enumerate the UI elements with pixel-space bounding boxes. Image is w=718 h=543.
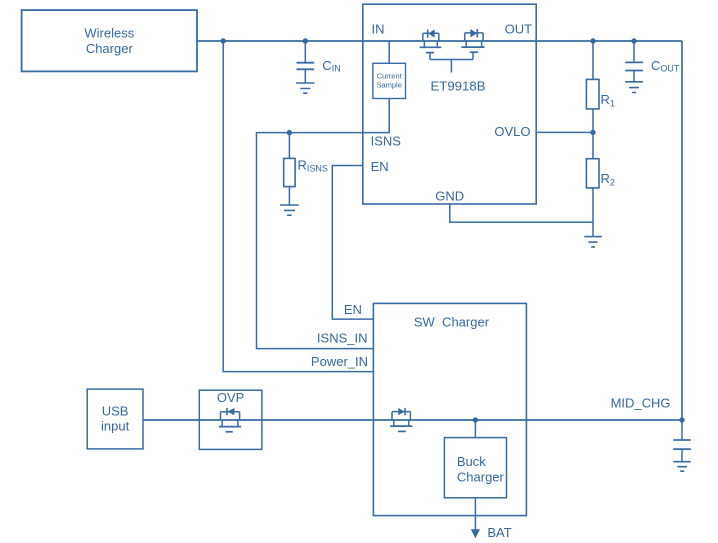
svg-text:RISNS: RISNS (298, 158, 328, 174)
node junction RISNS (287, 130, 292, 135)
wire OVLO net (536, 131, 593, 133)
transistor Q2 (IC pass FET, body diode right) (461, 29, 484, 60)
wire EN net (332, 166, 373, 320)
ground below COUT (625, 82, 643, 93)
svg-text:BAT: BAT (487, 525, 511, 540)
svg-text:ISNS_IN: ISNS_IN (317, 331, 368, 346)
resistor R1 (586, 41, 615, 132)
svg-text:input: input (101, 419, 130, 434)
wire Current Sample drop from rail (388, 41, 390, 63)
wire Buck Charger to BAT (474, 498, 476, 530)
capacitor COUT (625, 41, 680, 82)
svg-text:Sample: Sample (376, 80, 401, 89)
ground below RISNS (280, 205, 299, 215)
ground below R2 (584, 237, 601, 247)
node junction R1 top (590, 38, 595, 43)
wire GND pin (450, 204, 593, 222)
resistor R2 (586, 132, 615, 236)
wire right rail OUT to MID_CHG (681, 41, 683, 420)
wire gate bracket of Q1/Q2 (430, 60, 473, 73)
block SW Charger outline (373, 303, 526, 515)
node junction COUT (631, 38, 636, 43)
svg-text:OVLO: OVLO (494, 124, 530, 139)
svg-text:R1: R1 (601, 92, 615, 109)
ground below CIN (296, 83, 314, 93)
block Wireless Charger (22, 10, 197, 71)
node junction OVLO divider (590, 130, 595, 135)
svg-text:EN: EN (344, 302, 362, 317)
svg-text:Charger: Charger (457, 469, 505, 484)
svg-text:EN: EN (371, 159, 389, 174)
svg-text:COUT: COUT (651, 58, 680, 74)
node junction CIN (303, 38, 308, 43)
resistor RISNS (284, 133, 328, 205)
transistor Q4 (SW charger FET, body diode right) (390, 408, 412, 432)
svg-text:Power_IN: Power_IN (311, 354, 368, 369)
block OVP outline (199, 390, 262, 449)
svg-text:SW Charger: SW Charger (414, 314, 490, 329)
svg-text:Wireless: Wireless (84, 26, 134, 41)
svg-text:Buck: Buck (457, 454, 486, 469)
wire Buck Charger to MID_CHG rail (474, 420, 476, 438)
transistor Q3 (OVP FET, body diode left) (219, 408, 241, 432)
svg-text:IN: IN (372, 22, 385, 37)
svg-text:MID_CHG: MID_CHG (611, 396, 671, 411)
wire Power_IN (223, 41, 373, 372)
ground below MID_CHG cap (673, 462, 690, 472)
svg-text:ISNS: ISNS (371, 134, 402, 149)
arrow BAT (471, 529, 480, 538)
wire bottom rail USB/OVP/MID_CHG (143, 419, 682, 421)
transistor Q1 (IC pass FET, body diode left) (420, 29, 442, 59)
block USB input (87, 389, 143, 449)
IC U1 ET9918B outline (363, 4, 536, 204)
svg-text:USB: USB (102, 403, 129, 418)
svg-text:CIN: CIN (322, 58, 340, 74)
wire main top rail IN/OUT (197, 40, 682, 42)
svg-text:OUT: OUT (505, 22, 532, 37)
wire ISNS to ISNS_IN (257, 99, 390, 349)
svg-text:GND: GND (435, 189, 464, 204)
block Buck Charger (444, 438, 506, 498)
node junction wireless/power_in (221, 38, 226, 43)
svg-text:Current: Current (377, 72, 403, 81)
capacitor at MID_CHG (673, 420, 691, 462)
svg-text:ET9918B: ET9918B (431, 79, 486, 94)
svg-text:R2: R2 (601, 171, 615, 188)
capacitor CIN (297, 41, 341, 83)
node junction Buck tap (473, 417, 478, 422)
svg-text:Charger: Charger (86, 41, 134, 56)
node junction MID_CHG cap (679, 417, 684, 422)
block Current Sample (373, 63, 406, 98)
svg-text:OVP: OVP (217, 390, 244, 405)
